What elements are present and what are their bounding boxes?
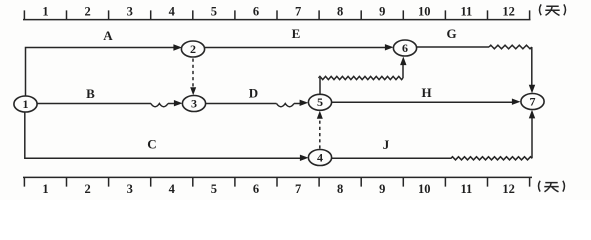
svg-text:4: 4 [169,4,176,18]
svg-text:J: J [383,137,390,152]
svg-text:A: A [103,28,113,43]
svg-text:D: D [249,86,258,101]
svg-text:2: 2 [190,42,196,56]
svg-text:10: 10 [418,4,431,18]
svg-text:H: H [421,85,431,100]
svg-text:C: C [147,136,156,151]
svg-text:2: 2 [84,182,90,196]
svg-text:6: 6 [253,182,259,196]
svg-text:11: 11 [460,182,472,196]
svg-text:3: 3 [191,96,197,110]
svg-text:7: 7 [295,182,301,196]
svg-text:5: 5 [211,182,217,196]
svg-text:E: E [292,26,301,41]
svg-text:11: 11 [460,4,472,18]
svg-text:8: 8 [337,182,343,196]
svg-text:6: 6 [253,4,259,18]
svg-text:6: 6 [402,41,408,55]
svg-text:5: 5 [211,4,217,18]
svg-text:12: 12 [502,4,515,18]
svg-text:1: 1 [23,97,29,111]
svg-text:3: 3 [127,182,133,196]
svg-text:4: 4 [317,150,323,164]
svg-text:8: 8 [337,4,343,18]
svg-text:9: 9 [379,4,385,18]
svg-text:1: 1 [42,4,48,18]
svg-text:1: 1 [42,182,48,196]
svg-text:3: 3 [127,4,133,18]
svg-text:2: 2 [84,4,90,18]
svg-text:5: 5 [317,95,323,109]
svg-text:10: 10 [418,182,431,196]
svg-text:4: 4 [169,182,176,196]
svg-text:7: 7 [530,94,536,108]
svg-text:12: 12 [502,182,515,196]
svg-text:G: G [446,26,456,41]
svg-text:7: 7 [295,4,301,18]
svg-text:9: 9 [379,182,385,196]
svg-text:B: B [86,86,95,101]
